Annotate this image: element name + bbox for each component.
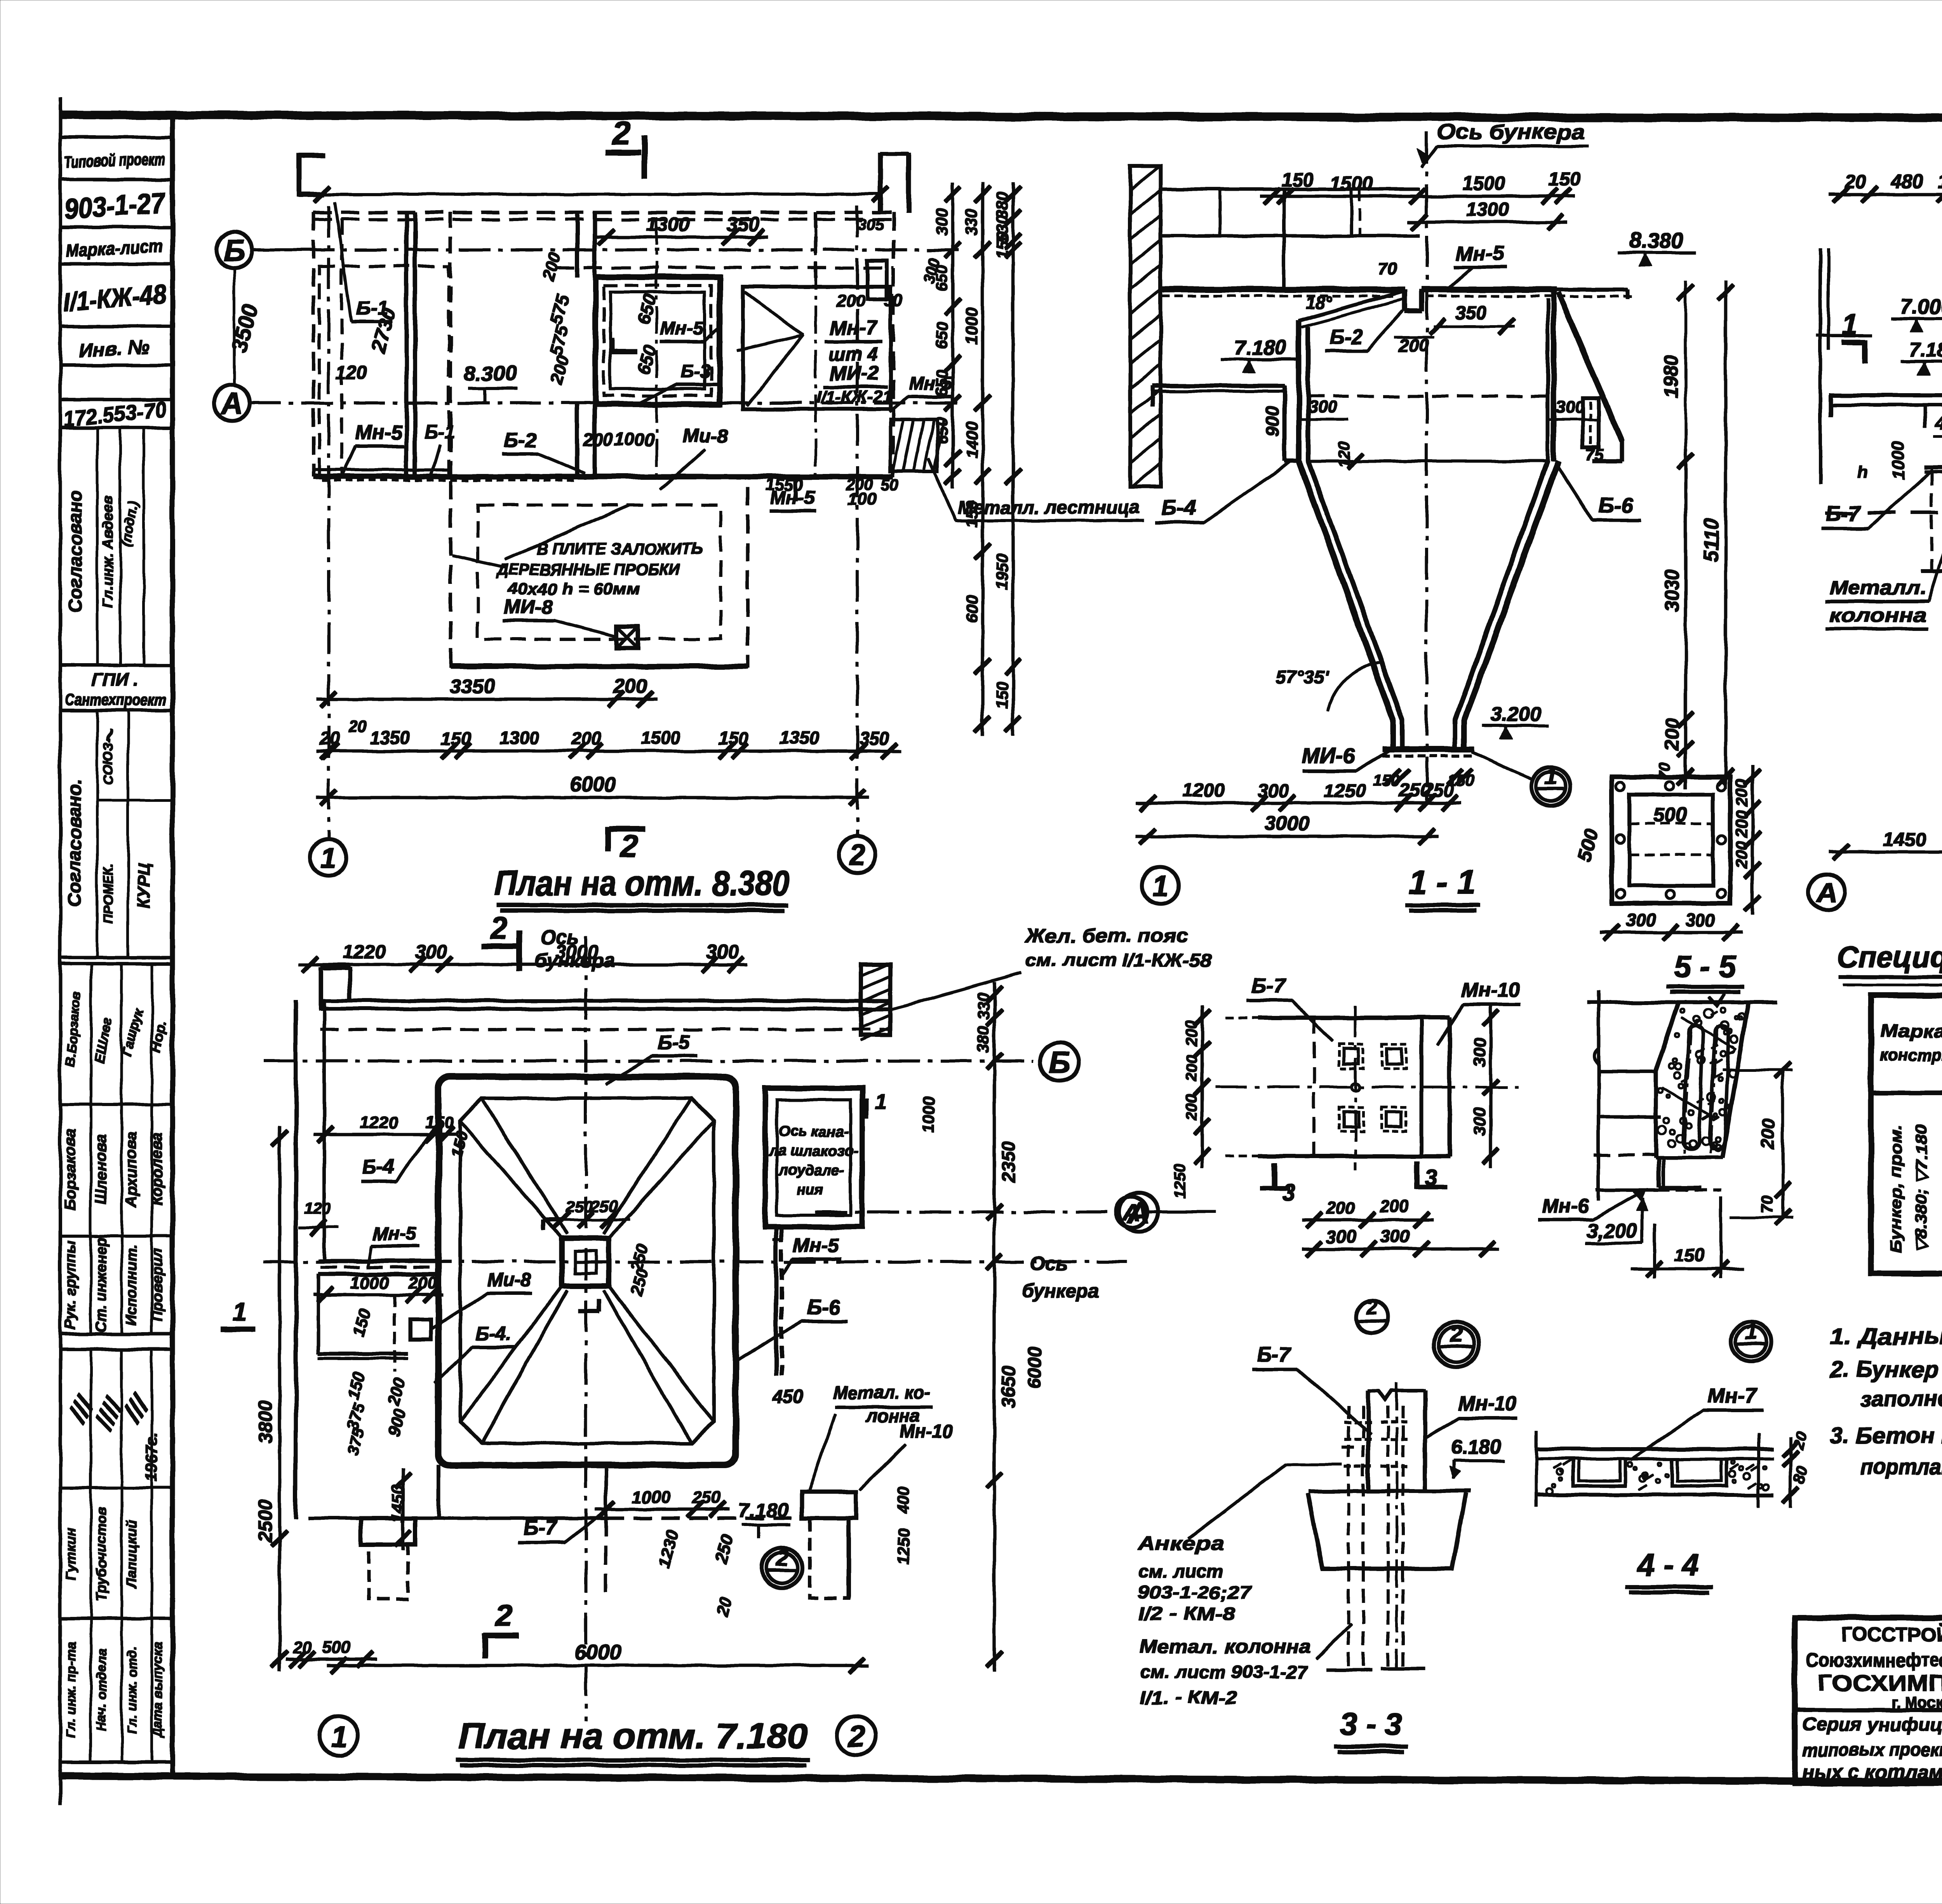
svg-text:Рук. группы: Рук. группы <box>63 1240 79 1329</box>
svg-text:3,200: 3,200 <box>1587 1220 1637 1242</box>
svg-text:1300: 1300 <box>500 728 540 748</box>
section 1-1 7.180 mark <box>1222 336 1299 373</box>
section 2-2 металл колонна label <box>1825 544 1942 629</box>
plan 8.380 central opening <box>556 218 893 478</box>
svg-text:1967г.: 1967г. <box>142 1432 160 1482</box>
svg-text:1400: 1400 <box>962 422 981 458</box>
plan 7.180 left ledge <box>221 1001 472 1518</box>
svg-text:1: 1 <box>331 1720 347 1753</box>
stamp text 903-1-27 <box>63 186 168 225</box>
svg-text:200: 200 <box>1183 1094 1200 1120</box>
svg-text:300: 300 <box>415 941 447 963</box>
ref circle 1 middle <box>1731 1319 1771 1362</box>
svg-text:400: 400 <box>894 1486 912 1514</box>
svg-text:I/1-КЖ-21: I/1-КЖ-21 <box>816 387 892 406</box>
svg-text:20: 20 <box>292 1638 312 1657</box>
svg-text:1: 1 <box>320 842 336 874</box>
svg-text:150: 150 <box>993 232 1011 259</box>
svg-text:Б-6: Б-6 <box>1598 493 1633 517</box>
svg-text:1300: 1300 <box>646 213 689 235</box>
svg-text:150: 150 <box>1281 169 1314 191</box>
title block org names <box>1806 1623 1942 1711</box>
note 3 <box>1830 1423 1942 1492</box>
svg-text:3350: 3350 <box>450 675 495 698</box>
svg-text:Б-7: Б-7 <box>1825 501 1861 525</box>
svg-text:1220: 1220 <box>360 1113 398 1132</box>
plan 7.180 axis circle 2 <box>837 1716 876 1755</box>
svg-text:1: 1 <box>1152 870 1168 902</box>
svg-text:Архипова: Архипова <box>123 1132 140 1207</box>
detail 44 concrete texture <box>1546 1460 1769 1495</box>
svg-text:Гл. инж. пр-та: Гл. инж. пр-та <box>64 1642 78 1738</box>
svg-text:Б-5: Б-5 <box>658 1031 690 1054</box>
svg-text:Мн-10: Мн-10 <box>900 1421 954 1442</box>
svg-text:Металл. лестница: Металл. лестница <box>957 497 1140 518</box>
svg-text:Нач. отдела: Нач. отдела <box>94 1649 109 1731</box>
svg-text:Союзхимнефтестройпроект: Союзхимнефтестройпроект <box>1806 1650 1942 1671</box>
svg-text:1250: 1250 <box>1324 780 1366 801</box>
svg-text:7.180: 7.180 <box>738 1499 789 1522</box>
svg-text:330: 330 <box>974 993 992 1020</box>
spec table grid <box>1871 995 1942 1273</box>
plan 7.180 detail circle 2-1 <box>762 1545 802 1588</box>
svg-text:300: 300 <box>1258 780 1289 801</box>
svg-text:ла шлакозо-: ла шлакозо- <box>768 1143 858 1159</box>
svg-text:200: 200 <box>613 675 647 698</box>
svg-text:300: 300 <box>933 208 951 235</box>
svg-text:ГПИ .: ГПИ . <box>92 669 139 690</box>
svg-text:Инв. №: Инв. № <box>78 336 150 361</box>
plan 7.180 bunker outer rect <box>439 1077 736 1465</box>
svg-text:Мн-5: Мн-5 <box>660 319 704 339</box>
plan 8.380 labels center <box>452 425 728 637</box>
svg-text:650: 650 <box>933 265 951 292</box>
svg-text:Ось кана-: Ось кана- <box>778 1124 849 1140</box>
svg-text:см. лист: см. лист <box>1138 1561 1223 1581</box>
svg-text:А: А <box>1122 1199 1141 1226</box>
plan 8.380 right small labels <box>766 216 952 511</box>
plan 7.180 bottom right structures <box>309 1465 856 1618</box>
svg-text:констр.: констр. <box>1880 1045 1942 1064</box>
svg-text:305: 305 <box>858 216 884 233</box>
svg-text:7.180: 7.180 <box>1909 339 1942 361</box>
plan 8.380 slab edge bottom <box>313 470 893 480</box>
svg-text:903-1-26;27: 903-1-26;27 <box>1138 1582 1252 1603</box>
detail B7 Mn10 plan outline <box>1216 1006 1519 1169</box>
plan 7.180 slag channel box <box>765 1088 887 1227</box>
section 1-1 Mn-5 plate strip right <box>1583 398 1599 448</box>
svg-text:ДЕРЕВЯННЫЕ ПРОБКИ: ДЕРЕВЯННЫЕ ПРОБКИ <box>496 560 680 578</box>
svg-text:1500: 1500 <box>1330 172 1373 194</box>
title block series text <box>1802 1714 1942 1783</box>
section 1-1 misc dims <box>1262 303 1604 711</box>
svg-text:2: 2 <box>612 115 631 152</box>
svg-text:1: 1 <box>233 1298 247 1326</box>
svg-text:Б-4: Б-4 <box>1161 495 1196 519</box>
svg-text:6.180: 6.180 <box>1451 1436 1501 1458</box>
section 1-1 Б-4 label <box>1155 462 1289 523</box>
svg-text:1450: 1450 <box>1883 828 1926 850</box>
svg-text:Трубочистов: Трубочистов <box>93 1507 109 1601</box>
plan 7.180 slab top edge <box>321 967 889 1030</box>
svg-text:Б: Б <box>223 233 245 267</box>
note 1 <box>1830 1324 1942 1349</box>
plan 8.380 bottom section mark 2 <box>608 827 645 863</box>
stamp text 172.553-70 <box>62 396 167 431</box>
plan 7.180 funnel diagonals <box>460 1098 714 1443</box>
plan 8.380 slab outline dashed <box>313 213 893 477</box>
spec table heading <box>1837 940 1942 986</box>
svg-text:900: 900 <box>1262 406 1282 436</box>
svg-text:МИ-6: МИ-6 <box>1302 744 1356 768</box>
plan 7.180 axis Б right <box>264 1042 1079 1081</box>
svg-text:150: 150 <box>993 681 1011 709</box>
svg-text:200: 200 <box>408 1273 437 1293</box>
svg-text:Гл.инж. Авдеев: Гл.инж. Авдеев <box>100 495 116 608</box>
svg-text:Ось: Ось <box>1030 1253 1067 1275</box>
svg-text:Типовой проект: Типовой проект <box>64 149 165 172</box>
section 1-1 1300 dim <box>1408 199 1567 230</box>
plan 8.380 axis Б <box>216 232 963 385</box>
svg-text:2: 2 <box>1366 1296 1378 1319</box>
plan 8.380 axis circle 1 bottom <box>310 839 347 876</box>
svg-text:3650: 3650 <box>999 1366 1019 1408</box>
plan 8.380 section mark 2 top <box>606 115 645 179</box>
svg-text:1000: 1000 <box>962 308 981 344</box>
svg-text:8.300: 8.300 <box>464 362 516 385</box>
stamp block bottom titles <box>60 1618 172 1762</box>
svg-text:1000: 1000 <box>1889 441 1908 479</box>
svg-text:200: 200 <box>1399 335 1429 355</box>
svg-text:Спецификация марок закладных: Спецификация марок закладных деталей. <box>1837 940 1942 974</box>
svg-text:200: 200 <box>1758 1118 1778 1149</box>
detail 5-5 title <box>1666 949 1744 992</box>
plan 7.180 left small labels <box>343 1123 532 1457</box>
svg-text:Метал. ко-: Метал. ко- <box>833 1382 931 1402</box>
section 2-2 bunker walls <box>1825 289 1942 513</box>
svg-text:350: 350 <box>1455 303 1486 324</box>
svg-text:380: 380 <box>974 1026 992 1053</box>
svg-text:250: 250 <box>692 1488 721 1507</box>
plan 7.180 axis horizontal center <box>264 1253 1126 1302</box>
stamp text Марка-лист <box>65 236 163 261</box>
svg-text:1000: 1000 <box>614 429 654 449</box>
plan 7.180 title <box>456 1716 810 1765</box>
svg-text:Б-3: Б-3 <box>680 361 710 382</box>
svg-text:300: 300 <box>1326 1226 1356 1247</box>
detail 5-5 plan square <box>1573 777 1730 903</box>
svg-text:200: 200 <box>583 429 613 449</box>
svg-text:1220: 1220 <box>343 941 386 963</box>
detail 44 slab section <box>1536 1432 1773 1507</box>
svg-text:120: 120 <box>336 362 367 383</box>
stamp block names table <box>60 964 172 1334</box>
detail B7 anchor symbols <box>1339 1044 1406 1131</box>
plan 7.180 axis vertical center <box>585 936 587 1721</box>
svg-text:150: 150 <box>719 728 748 749</box>
svg-text:Б-2: Б-2 <box>1329 326 1362 348</box>
svg-text:Ми-8: Ми-8 <box>682 425 728 447</box>
svg-text:Согласовано.: Согласовано. <box>64 779 85 907</box>
svg-text:20: 20 <box>348 718 367 736</box>
svg-text:Мн-5: Мн-5 <box>793 1234 839 1256</box>
svg-text:Б-2: Б-2 <box>504 429 536 451</box>
svg-text:Мн-7: Мн-7 <box>1708 1384 1758 1407</box>
svg-text:I/1. - КМ-2: I/1. - КМ-2 <box>1140 1687 1237 1707</box>
detail 33 labels <box>1189 1343 1517 1538</box>
svg-text:50: 50 <box>881 476 900 494</box>
svg-text:ных с котлами ДКВР.: ных с котлами ДКВР. <box>1802 1761 1942 1783</box>
svg-text:150: 150 <box>1937 171 1942 192</box>
svg-text:300: 300 <box>1380 1226 1410 1247</box>
svg-text:1500: 1500 <box>641 728 681 748</box>
stamp text ГПИ Сантехпроект <box>65 669 166 709</box>
svg-text:Бункер, пром.: Бункер, пром. <box>1886 1125 1905 1253</box>
svg-text:2: 2 <box>776 1545 788 1571</box>
svg-text:600: 600 <box>962 595 981 622</box>
svg-text:h: h <box>1857 463 1868 482</box>
section 1-1 upper floor lines <box>1161 189 1420 289</box>
detail B7 labels <box>1247 974 1520 1045</box>
svg-text:300: 300 <box>1470 1107 1489 1136</box>
svg-text:200: 200 <box>1732 841 1751 869</box>
plan 7.180 right dim chains <box>894 983 1045 1671</box>
svg-text:МИ-2: МИ-2 <box>830 362 879 385</box>
section 1-1 bottom dims <box>1136 769 1475 844</box>
svg-text:Дата выпуска: Дата выпуска <box>150 1642 165 1739</box>
detail 33 column text <box>1140 1624 1352 1707</box>
svg-text:Б-7: Б-7 <box>1251 974 1286 997</box>
section 1-1 Б-6 label <box>1557 466 1641 521</box>
svg-text:650: 650 <box>933 321 951 348</box>
section 2-2 left ledge and column <box>1817 249 1942 571</box>
note 2 <box>1829 1357 1942 1417</box>
svg-text:Б-4: Б-4 <box>362 1155 394 1178</box>
svg-text:70: 70 <box>1759 1196 1776 1213</box>
svg-text:200: 200 <box>571 728 601 749</box>
plan 7.180 central opening <box>544 1220 609 1311</box>
svg-text:Гуткин: Гуткин <box>63 1528 78 1580</box>
title block frame <box>1795 1618 1942 1783</box>
svg-text:Анкера: Анкера <box>1137 1533 1223 1554</box>
svg-text:200: 200 <box>1326 1198 1355 1218</box>
detail 33 title <box>1334 1707 1408 1752</box>
plan 8.380 interior walls <box>407 213 816 477</box>
svg-text:КУРЦ: КУРЦ <box>134 863 153 909</box>
svg-text:Ст. инженер: Ст. инженер <box>93 1238 110 1333</box>
stamp text I/1-КЖ-48 <box>62 279 167 317</box>
svg-text:6000: 6000 <box>1025 1347 1045 1388</box>
plan 8.380 top wall brackets <box>299 153 909 213</box>
plan 8.380 lower pit dashed <box>451 477 796 666</box>
svg-text:типовых проектов котель-: типовых проектов котель- <box>1802 1739 1942 1760</box>
section 1-1 right dim chain <box>1655 281 1733 789</box>
svg-text:2: 2 <box>490 910 508 945</box>
left stamp column boxes <box>60 137 172 958</box>
svg-text:1250: 1250 <box>1171 1164 1188 1198</box>
ref circle 2 middle <box>1434 1322 1479 1367</box>
svg-text:Жел. бет. пояс: Жел. бет. пояс <box>1024 925 1189 946</box>
section 2-2 bottom dims <box>1829 764 1942 860</box>
svg-text:Б-4.: Б-4. <box>475 1323 512 1345</box>
svg-text:200: 200 <box>1732 810 1751 838</box>
detail 33 column <box>1309 1383 1470 1667</box>
svg-text:2350: 2350 <box>999 1141 1019 1183</box>
plan 8.380 axis circle 2 bottom <box>839 836 875 873</box>
svg-text:Мн-5: Мн-5 <box>1456 242 1504 265</box>
svg-text:Б-6: Б-6 <box>807 1296 840 1319</box>
svg-text:лоудале-: лоудале- <box>778 1162 845 1179</box>
svg-text:300: 300 <box>1626 910 1656 930</box>
stamp block Согласовано 1 <box>65 428 144 665</box>
detail B7 dims <box>1171 1006 1499 1257</box>
svg-text:3000: 3000 <box>1265 812 1310 835</box>
svg-text:1350: 1350 <box>780 728 820 748</box>
svg-text:200: 200 <box>836 292 865 311</box>
svg-text:7.000: 7.000 <box>1900 295 1942 319</box>
svg-text:2: 2 <box>847 1720 865 1753</box>
plan 8.380 labels left <box>335 202 517 476</box>
svg-text:120: 120 <box>304 1199 331 1218</box>
svg-text:18°: 18° <box>1305 293 1332 313</box>
svg-text:3000: 3000 <box>555 941 598 963</box>
svg-text:4 - 4: 4 - 4 <box>1636 1547 1699 1582</box>
section 1-1 axis line <box>1418 120 1589 808</box>
detail 44 label Мн-7 <box>1631 1384 1763 1460</box>
svg-text:Мн-6: Мн-6 <box>1542 1195 1589 1218</box>
stamp block Согласовано 2 <box>64 710 172 958</box>
svg-text:200: 200 <box>1732 779 1751 807</box>
detail 33 bolts below <box>1326 1569 1425 1670</box>
svg-text:Металл.: Металл. <box>1829 577 1926 599</box>
detail 44 dims <box>1783 1430 1811 1507</box>
svg-text:3 - 3: 3 - 3 <box>1340 1707 1402 1741</box>
svg-text:20: 20 <box>1844 171 1866 192</box>
section 1 mark right <box>1842 309 1865 363</box>
svg-text:380: 380 <box>993 192 1011 219</box>
detail 55 concrete band outline <box>1656 995 1749 1158</box>
svg-text:7.180: 7.180 <box>1234 336 1286 359</box>
plan 7.180 left dim chains <box>254 1127 411 1671</box>
svg-text:А: А <box>1815 877 1837 909</box>
svg-text:1: 1 <box>875 1089 887 1114</box>
svg-text:г. Москва: г. Москва <box>1892 1694 1942 1711</box>
svg-text:А: А <box>220 386 243 420</box>
section 2-2 top dim chain <box>1829 171 1942 202</box>
svg-text:1550: 1550 <box>766 475 804 494</box>
svg-text:2: 2 <box>848 839 865 871</box>
svg-text:1350: 1350 <box>370 728 410 748</box>
section 1-1 funnel <box>1299 461 1559 756</box>
svg-text:150: 150 <box>1548 168 1581 190</box>
svg-text:350: 350 <box>859 728 889 749</box>
svg-text:500: 500 <box>1653 804 1687 826</box>
svg-text:300: 300 <box>1556 398 1584 417</box>
svg-text:650: 650 <box>933 417 951 444</box>
svg-text:1250: 1250 <box>894 1528 912 1564</box>
plan 8.380 axis А <box>214 302 963 421</box>
spec table header texts <box>1880 1005 1942 1084</box>
svg-text:6000: 6000 <box>574 1641 621 1664</box>
svg-text:Проверил: Проверил <box>149 1249 165 1322</box>
svg-text:Мн-10: Мн-10 <box>1462 979 1520 1001</box>
svg-text:300: 300 <box>1685 910 1715 930</box>
svg-text:650: 650 <box>933 369 951 397</box>
svg-text:3: 3 <box>1282 1180 1295 1205</box>
svg-text:75: 75 <box>1585 446 1604 464</box>
plan 7.180 section mark 2 top <box>482 910 615 972</box>
svg-text:колонна: колонна <box>1829 604 1926 626</box>
svg-text:300: 300 <box>1308 398 1337 417</box>
svg-text:5110: 5110 <box>1700 518 1723 562</box>
section 1-1 top slab <box>1161 289 1633 311</box>
svg-text:3.200: 3.200 <box>1491 703 1541 726</box>
svg-text:400: 400 <box>1935 413 1942 434</box>
detail 55 left reference lines <box>1594 1049 1661 1190</box>
svg-text:Шленова: Шленова <box>92 1134 110 1204</box>
plan 8.380 opening right МИ-2 <box>737 287 893 409</box>
plan 8.380 bottom dims <box>317 675 901 805</box>
plan 7.180 axis circle 1 <box>319 1716 358 1755</box>
svg-text:Лапицкий: Лапицкий <box>124 1520 139 1589</box>
svg-text:Королева: Королева <box>148 1133 165 1206</box>
svg-text:План на отм. 8.380: План на отм. 8.380 <box>494 864 790 903</box>
svg-text:2: 2 <box>1450 1322 1463 1347</box>
svg-text:ПРОМЕК.: ПРОМЕК. <box>101 864 116 924</box>
svg-text:В ПЛИТЕ ЗАЛОЖИТЬ: В ПЛИТЕ ЗАЛОЖИТЬ <box>536 540 703 558</box>
svg-text:Мн-5: Мн-5 <box>355 421 403 444</box>
svg-text:200: 200 <box>1183 1055 1200 1082</box>
svg-text:500: 500 <box>322 1638 350 1657</box>
svg-text:ГОССТРОЙ СССР: ГОССТРОЙ СССР <box>1841 1623 1942 1646</box>
plan 8.380 right dim chains <box>933 183 1021 735</box>
detail 44 title <box>1625 1547 1713 1592</box>
plan 7.180 bunker inner rect with chamfers <box>460 1098 714 1443</box>
stamp block signatures 1967 <box>60 1349 172 1618</box>
svg-text:70: 70 <box>1378 259 1397 278</box>
svg-text:1500: 1500 <box>1462 172 1505 194</box>
svg-text:План на отм. 7.180: План на отм. 7.180 <box>458 1716 808 1756</box>
detail 55 concrete dots <box>1658 1008 1745 1151</box>
svg-text:Б: Б <box>1049 1045 1071 1080</box>
svg-text:3. Бетон марки - „200“ на су: 3. Бетон марки - „200“ на сульфатостойко… <box>1830 1423 1942 1448</box>
svg-text:3030: 3030 <box>1661 569 1683 612</box>
plan 8.380 axis 1 vertical <box>327 206 330 838</box>
stamp text Инв N <box>78 336 150 361</box>
plan 7.180 top dim chain <box>299 941 747 972</box>
section 1-1 18deg slope line <box>1299 259 1405 327</box>
svg-text:200: 200 <box>1183 1021 1200 1047</box>
svg-text:Б-7: Б-7 <box>1257 1343 1292 1366</box>
detail B7 ref circle 2 <box>1356 1296 1388 1333</box>
rebar belt note <box>889 925 1212 1010</box>
detail 33 anchor text <box>1137 1533 1252 1624</box>
svg-text:Б-7: Б-7 <box>523 1516 558 1539</box>
section 1-1 hatched wall left <box>1130 166 1161 488</box>
plan 8.380 title <box>494 864 790 911</box>
svg-text:Метал. колонна: Метал. колонна <box>1140 1636 1311 1657</box>
section 1-1 3.200 mark <box>1483 703 1549 739</box>
svg-text:СОЮЗ-: СОЮЗ- <box>101 738 116 785</box>
svg-text:заполнения шлаком и золой с: заполнения шлаком и золой с объемным вес… <box>1860 1387 1942 1411</box>
section 2-2 7.000 mark <box>1892 295 1942 332</box>
svg-text:Б-1: Б-1 <box>425 422 455 442</box>
svg-text:5 - 5: 5 - 5 <box>1674 949 1737 984</box>
svg-text:1. Данный лист см. с листами: 1. Данный лист см. с листами I/1 -КЖ-49÷… <box>1830 1324 1942 1349</box>
svg-text:I/2 - КМ-8: I/2 - КМ-8 <box>1138 1604 1236 1624</box>
plan 7.180 bottom section mark 2 <box>484 1598 519 1658</box>
svg-text:1000: 1000 <box>351 1273 389 1293</box>
